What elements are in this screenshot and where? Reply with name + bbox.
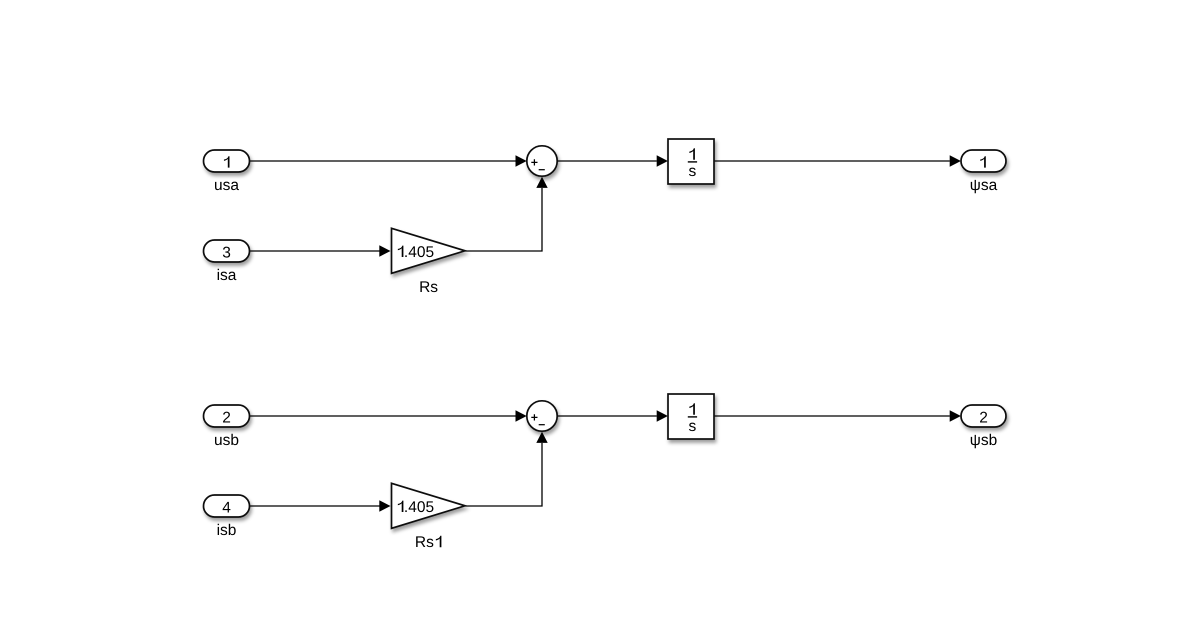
svg-text:.405: .405 xyxy=(404,499,434,516)
svg-text:2: 2 xyxy=(979,410,988,427)
svg-text:usb: usb xyxy=(214,432,239,449)
svg-text:4: 4 xyxy=(222,500,231,517)
svg-text:isb: isb xyxy=(217,522,237,539)
svg-text:s: s xyxy=(689,163,697,180)
svg-text:ψsb: ψsb xyxy=(970,432,997,449)
svg-text:s: s xyxy=(689,418,697,435)
svg-text:3: 3 xyxy=(222,245,231,262)
svg-text:ψsa: ψsa xyxy=(970,177,998,194)
svg-text:usa: usa xyxy=(214,177,239,194)
svg-text:2: 2 xyxy=(222,410,231,427)
svg-text:Rs: Rs xyxy=(419,279,438,296)
svg-text:.405: .405 xyxy=(404,244,434,261)
svg-text:isa: isa xyxy=(217,267,237,284)
svg-text:Rs: Rs xyxy=(415,534,434,551)
